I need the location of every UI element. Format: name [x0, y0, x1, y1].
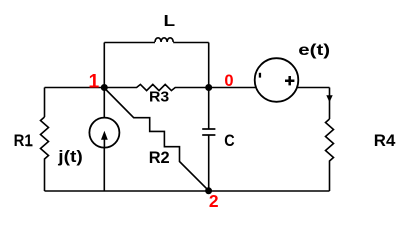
wire top right down to node0 [208, 43, 210, 88]
wire node1 to left corner [45, 87, 105, 89]
wire right side lower [329, 163, 331, 192]
svg-text:R4: R4 [374, 132, 396, 150]
svg-text:0: 0 [224, 72, 233, 90]
node 0 junction dot [205, 84, 212, 91]
current source arrow shaft [103, 139, 105, 148]
capacitor C bottom lead [208, 135, 210, 191]
wire left side upper [44, 88, 46, 118]
resistor R2 diagonal with staircase [104, 88, 208, 191]
wire node0 to voltage source [209, 87, 256, 89]
current source J1 circle [89, 118, 119, 148]
node 1 junction dot [101, 84, 108, 91]
wire left side lower [44, 161, 46, 192]
wire bottom [45, 190, 330, 192]
wire node1 up [103, 43, 105, 88]
inductor L [155, 38, 173, 42]
wire top left [104, 42, 155, 44]
svg-text:e(t): e(t) [298, 42, 330, 59]
svg-text:L: L [164, 13, 176, 30]
wire voltage source to right corner [297, 87, 329, 89]
resistor R1 [41, 117, 49, 161]
svg-text:R1: R1 [14, 132, 33, 150]
wire node1 down to current source [103, 88, 105, 118]
svg-text:C: C [224, 132, 234, 150]
node 2 junction dot [205, 187, 212, 194]
wire current source to bottom [103, 148, 105, 191]
current direction arrow on right branch [326, 95, 332, 102]
wire right side down [329, 88, 331, 120]
resistor R4 [326, 119, 334, 163]
current source arrow head [101, 131, 108, 140]
capacitor C top plate [202, 128, 215, 130]
voltage source minus tick [259, 73, 261, 78]
svg-text:R2: R2 [149, 149, 170, 167]
resistor R3 [104, 84, 208, 90]
svg-text:j(t): j(t) [57, 148, 83, 166]
capacitor C top lead [208, 88, 210, 130]
svg-text:R3: R3 [149, 89, 169, 106]
svg-text:1: 1 [89, 71, 100, 92]
voltage source E1 circle [255, 58, 299, 102]
wire top right [173, 42, 209, 44]
voltage source plus sign [285, 76, 294, 85]
capacitor C bottom plate [202, 134, 215, 136]
svg-text:2: 2 [209, 191, 219, 211]
